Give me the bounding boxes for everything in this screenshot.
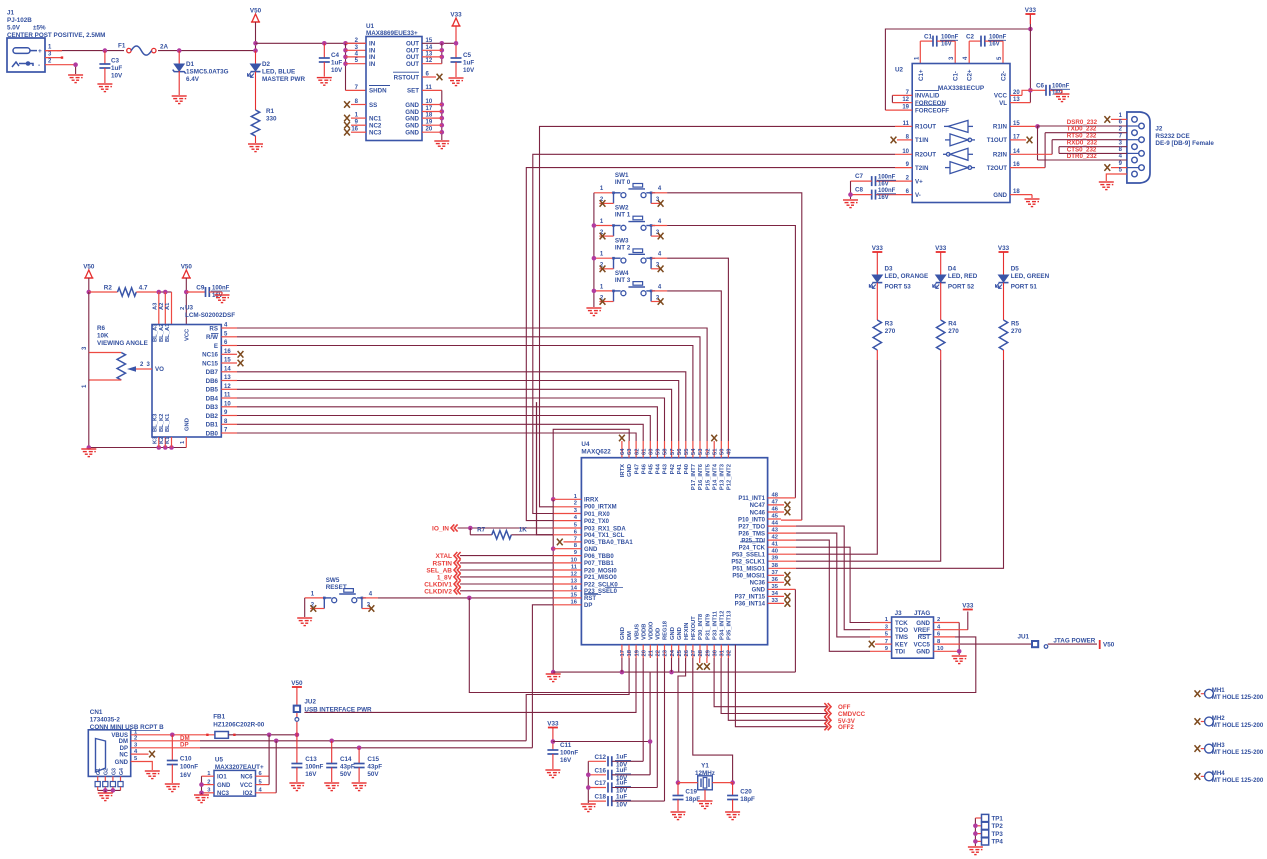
svg-text:GND: GND — [627, 464, 633, 477]
U2 FORCEOFF wire to V33 loop — [885, 109, 912, 111]
svg-text:V-: V- — [915, 192, 921, 199]
svg-text:P21_MISO0: P21_MISO0 — [584, 575, 617, 581]
svg-text:+: + — [38, 48, 42, 55]
svg-text:V33: V33 — [962, 602, 974, 609]
wire C18 riser to REG18 — [664, 658, 666, 801]
U4 bottom pin 30 P33_INT11 — [713, 645, 715, 658]
svg-text:54: 54 — [691, 448, 697, 455]
svg-text:VO: VO — [155, 366, 164, 373]
svg-text:100nF: 100nF — [878, 175, 896, 181]
ground at C14 — [324, 783, 339, 791]
svg-text:18pF: 18pF — [740, 796, 755, 803]
U4 top pin 56 P41 — [678, 441, 680, 458]
svg-text:SS: SS — [369, 102, 377, 109]
svg-text:C16: C16 — [595, 767, 607, 774]
U4 bottom pin 31 P34_INT12 — [720, 645, 722, 658]
svg-text:270: 270 — [1011, 328, 1022, 335]
U2 VL wire — [1010, 102, 1030, 104]
wire U5 left bracket to ground — [201, 776, 203, 793]
svg-text:PORT 51: PORT 51 — [1011, 284, 1038, 291]
mount hole MH4 — [1195, 773, 1201, 780]
ground at J2 — [1099, 182, 1114, 190]
wire D3 to U4 P53 — [796, 360, 877, 554]
svg-text:A2: A2 — [159, 303, 165, 310]
mount hole MH1 — [1195, 690, 1201, 697]
ground at LCD — [81, 449, 96, 457]
ground at U4 bus — [546, 674, 561, 682]
svg-text:V50: V50 — [181, 264, 193, 271]
svg-text:V50: V50 — [83, 264, 95, 271]
svg-text:RSTOUT: RSTOUT — [394, 74, 420, 81]
svg-text:LED, GREEN: LED, GREEN — [1011, 273, 1050, 280]
svg-text:RSTIN: RSTIN — [433, 560, 453, 567]
capacitor C9 — [186, 291, 205, 293]
ground at D1 — [172, 96, 187, 104]
wire RST to JTAG — [469, 598, 976, 693]
U4 pin 64 no-connect — [619, 435, 625, 442]
svg-text:RS232 DCE: RS232 DCE — [1155, 133, 1189, 140]
svg-text:GND: GND — [620, 627, 626, 640]
svg-text:J2: J2 — [1155, 126, 1163, 133]
wire DB3 to U4 — [221, 406, 237, 408]
J2 pin 5 wire to ground — [1106, 174, 1127, 181]
svg-text:63: 63 — [627, 448, 633, 455]
svg-text:P14_INT4: P14_INT4 — [712, 463, 718, 490]
J1 pin 3 stub — [45, 57, 62, 59]
wire R2IN to RTS — [1010, 153, 1052, 155]
svg-text:T2IN: T2IN — [915, 165, 929, 172]
mount hole MH3 — [1195, 745, 1201, 752]
wire rail upper to U1 — [256, 42, 367, 44]
svg-text:U5: U5 — [215, 757, 224, 764]
U2 GND pin 18 wire — [1010, 194, 1032, 196]
svg-text:JTAG: JTAG — [914, 610, 930, 617]
svg-text:100nF: 100nF — [878, 188, 896, 194]
wire R1OUT to U4 P00 — [895, 125, 912, 127]
ground at U1 — [434, 141, 449, 149]
svg-text:SW4: SW4 — [615, 270, 629, 277]
ground at C6 — [1061, 90, 1063, 93]
wire R1IN to DSR — [1010, 125, 1038, 127]
svg-text:TP2: TP2 — [992, 823, 1004, 830]
node DSR0_232 — [1038, 125, 1127, 127]
svg-text:U2: U2 — [895, 67, 904, 74]
capacitor C12 — [588, 760, 606, 762]
U4 top pin 57 P42 — [671, 441, 673, 458]
svg-text:P00_IRTXM: P00_IRTXM — [584, 505, 617, 511]
svg-text:A3: A3 — [153, 302, 159, 310]
capacitor C5 — [451, 58, 462, 62]
diode D1 zener — [177, 48, 182, 53]
svg-text:56: 56 — [677, 448, 683, 455]
svg-text:OUT: OUT — [406, 61, 419, 68]
U4 top pin 60 P45 — [649, 441, 651, 458]
wire U5 NC6 VCC to VBUS — [256, 775, 270, 777]
svg-text:NC2: NC2 — [369, 123, 382, 130]
svg-text:58: 58 — [663, 448, 669, 455]
svg-text:T2OUT: T2OUT — [987, 165, 1008, 172]
U4 top pin 59 P44 — [656, 441, 658, 458]
power V50 at LCD VCC — [182, 270, 191, 278]
svg-text:GND: GND — [217, 783, 231, 789]
svg-text:P31_INT9: P31_INT9 — [705, 613, 711, 640]
svg-text:DB1: DB1 — [206, 422, 219, 429]
U4 pin 51 no-connect — [711, 435, 717, 442]
svg-text:R5: R5 — [1011, 321, 1020, 328]
J2 pin 1 no-connect — [1111, 118, 1127, 120]
ground at C13 — [289, 783, 304, 791]
svg-text:VIEWING ANGLE: VIEWING ANGLE — [97, 340, 148, 347]
svg-text:P44: P44 — [656, 463, 662, 474]
U4 top pin 55 P40 — [685, 441, 687, 458]
svg-text:V+: V+ — [915, 178, 923, 185]
U4 bottom pin 25 GND — [678, 645, 680, 658]
svg-text:50: 50 — [720, 449, 726, 455]
svg-text:NC16: NC16 — [202, 352, 218, 359]
wire R/W to U4 — [221, 336, 237, 338]
svg-text:D4: D4 — [948, 266, 957, 273]
ground at C5 — [449, 78, 464, 86]
wire R2OUT to U4 P01 — [895, 153, 912, 155]
U4 top pin 58 P43 — [664, 441, 666, 458]
svg-text:27: 27 — [691, 650, 697, 656]
wire V33 branch to VDD — [553, 673, 650, 742]
wire RS to U4 — [221, 327, 237, 329]
wire HFXOUT to crystal — [693, 658, 733, 783]
svg-text:U3: U3 — [185, 305, 194, 312]
svg-text:P33_INT11: P33_INT11 — [712, 610, 718, 640]
wire T2IN to U4 P02 — [895, 167, 912, 169]
svg-text:5.0V: 5.0V — [7, 25, 21, 32]
svg-text:G4: G4 — [119, 768, 125, 775]
svg-text:C6: C6 — [1036, 83, 1045, 90]
power V50 at R2 — [84, 270, 93, 278]
svg-text:JTAG POWER: JTAG POWER — [1053, 638, 1095, 645]
svg-text:P15_INT5: P15_INT5 — [705, 463, 711, 490]
wire D4 to U4 P52 — [796, 360, 941, 561]
power V33 at D3 — [872, 251, 882, 253]
svg-text:270: 270 — [885, 328, 896, 335]
capacitor C13 — [296, 735, 298, 764]
ground at CN1 shell — [98, 793, 113, 801]
svg-text:62: 62 — [634, 449, 640, 455]
svg-text:1uF: 1uF — [616, 780, 627, 787]
svg-text:GND: GND — [405, 123, 419, 130]
svg-text:IO1: IO1 — [217, 775, 227, 781]
svg-text:61: 61 — [641, 448, 647, 455]
node CMDVCC — [721, 658, 828, 714]
svg-text:RST: RST — [918, 634, 931, 641]
capacitor C7 — [876, 180, 913, 182]
svg-text:10V: 10V — [463, 67, 475, 74]
svg-text:1K: 1K — [519, 527, 528, 534]
connector J1 power jack — [7, 38, 45, 72]
U4 bottom pin 22 VDD — [656, 645, 658, 658]
ground at C9 — [221, 292, 223, 294]
svg-text:100nF: 100nF — [180, 764, 198, 771]
svg-text:R2IN: R2IN — [993, 152, 1008, 159]
svg-text:G3: G3 — [111, 768, 117, 775]
svg-text:P10_INT0: P10_INT0 — [738, 517, 766, 523]
svg-text:GND: GND — [916, 620, 930, 627]
U4 left pins 1-8 stubs — [553, 498, 581, 500]
svg-text:43pF: 43pF — [367, 763, 382, 770]
U4 top pin 53 P16_INT6 — [699, 441, 701, 458]
svg-text:100nF: 100nF — [305, 763, 323, 770]
svg-text:C1+: C1+ — [918, 69, 925, 81]
crystal case ground — [704, 790, 706, 800]
ground at SW5 — [297, 618, 312, 626]
svg-text:R1OUT: R1OUT — [915, 124, 936, 131]
svg-text:330: 330 — [266, 116, 277, 123]
svg-text:100nF: 100nF — [941, 35, 959, 41]
svg-text:TDI: TDI — [895, 649, 905, 656]
LED D4 — [936, 275, 946, 282]
power V33 at J3 — [963, 609, 973, 611]
svg-text:C8: C8 — [855, 187, 864, 194]
svg-text:F1: F1 — [118, 43, 126, 50]
U1 pin2 wire — [346, 42, 367, 44]
wire DB0 to U4 — [221, 432, 237, 434]
svg-text:1uF: 1uF — [616, 793, 627, 800]
svg-text:SW1: SW1 — [615, 172, 629, 179]
svg-text:C13: C13 — [305, 756, 317, 763]
capacitor C17 — [588, 787, 606, 789]
wire DB6 to U4 — [221, 380, 237, 382]
svg-text:NC3: NC3 — [217, 791, 230, 797]
node 5V-3V — [728, 658, 828, 720]
CN1 shell pins G1-G4 — [97, 776, 99, 781]
J1 pin 1 wire — [45, 50, 62, 52]
svg-text:P46: P46 — [641, 463, 647, 474]
svg-text:R/W: R/W — [206, 334, 218, 341]
svg-text:GND: GND — [916, 649, 930, 656]
svg-text:FB1: FB1 — [213, 714, 225, 721]
svg-text:BL_A1: BL_A1 — [165, 323, 171, 342]
U4 bottom pin 27 HFXOUT — [692, 645, 694, 658]
capacitor C18 — [588, 800, 606, 802]
svg-text:17: 17 — [620, 650, 626, 656]
svg-text:P35_INT13: P35_INT13 — [727, 610, 733, 640]
svg-text:C2+: C2+ — [967, 69, 974, 81]
svg-text:C2: C2 — [966, 34, 975, 41]
wire VBUS line — [131, 734, 215, 736]
svg-text:GND: GND — [405, 102, 419, 109]
svg-text:10V: 10V — [331, 67, 343, 74]
capacitor C3 — [103, 48, 108, 53]
svg-text:V50: V50 — [1103, 642, 1115, 649]
svg-text:16V: 16V — [989, 42, 1000, 48]
svg-text:C18: C18 — [595, 794, 607, 801]
svg-text:RTS0_232: RTS0_232 — [1067, 133, 1097, 140]
svg-text:1uF: 1uF — [331, 60, 342, 67]
ground at C15 — [352, 783, 367, 791]
svg-text:JU1: JU1 — [1017, 634, 1029, 641]
svg-text:DE-9 [DB-9] Female: DE-9 [DB-9] Female — [1155, 140, 1214, 147]
svg-text:100nF: 100nF — [560, 750, 578, 757]
svg-text:TMS: TMS — [895, 634, 908, 641]
svg-text:R1: R1 — [266, 108, 275, 115]
svg-text:16V: 16V — [878, 195, 889, 201]
svg-text:C2-: C2- — [1001, 71, 1008, 81]
svg-text:1SMC5.0AT3G: 1SMC5.0AT3G — [186, 69, 229, 76]
ground at C18 bracket — [581, 804, 596, 812]
svg-text:LED, BLUE: LED, BLUE — [262, 69, 295, 76]
svg-text:TP3: TP3 — [992, 831, 1004, 838]
ground at switches — [586, 308, 601, 316]
svg-text:MH2: MH2 — [1212, 715, 1225, 722]
U4 bottom pin 18 DM — [628, 645, 630, 658]
svg-text:JU2: JU2 — [304, 699, 316, 706]
ground at C10 — [165, 784, 180, 792]
svg-text:VCC5: VCC5 — [913, 641, 930, 648]
svg-text:1uF: 1uF — [616, 754, 627, 761]
wire U1 input bracket — [343, 41, 348, 46]
svg-text:VBUS: VBUS — [634, 624, 640, 640]
svg-text:16V: 16V — [180, 772, 192, 779]
wire SW2 to U4 P11_INT1 — [667, 226, 795, 498]
svg-text:50V: 50V — [340, 771, 352, 778]
U1 RSTOUT no-connect — [422, 76, 436, 78]
U1 SET wire and GND bracket — [422, 89, 442, 91]
svg-text:SW3: SW3 — [615, 237, 629, 244]
svg-text:IO_IN: IO_IN — [432, 526, 449, 533]
svg-text:PJ-102B: PJ-102B — [7, 17, 32, 24]
svg-text:G2: G2 — [104, 768, 110, 775]
U2 VCC wire — [1010, 94, 1022, 96]
svg-text:MT HOLE 125-200: MT HOLE 125-200 — [1212, 722, 1264, 729]
svg-text:32: 32 — [727, 650, 733, 656]
svg-text:R1IN: R1IN — [993, 124, 1008, 131]
svg-text:C14: C14 — [340, 756, 352, 763]
U4 top pin 52 P15_INT5 — [706, 441, 708, 458]
connector J2 DE-9 — [1127, 112, 1150, 183]
svg-text:RS: RS — [209, 325, 218, 332]
svg-text:PORT 53: PORT 53 — [885, 284, 912, 291]
wire branch to U4 P04 — [537, 402, 554, 535]
svg-text:C15: C15 — [367, 756, 379, 763]
svg-text:C4: C4 — [331, 52, 340, 59]
svg-text:MAXQ622: MAXQ622 — [581, 449, 611, 456]
svg-text:20: 20 — [641, 650, 647, 656]
svg-text:55: 55 — [684, 448, 690, 455]
node CTS0_232 — [1059, 152, 1127, 154]
svg-text:INT 0: INT 0 — [615, 179, 631, 186]
svg-text:51: 51 — [712, 448, 718, 455]
power V33 at U2 — [1025, 13, 1035, 15]
capacitor C15 — [358, 748, 360, 764]
svg-text:V33: V33 — [1025, 7, 1037, 14]
svg-text:DB4: DB4 — [206, 395, 219, 402]
ground at U5 — [194, 795, 209, 803]
wire DSR to DTR loop — [1037, 126, 1039, 160]
svg-text:57: 57 — [670, 449, 676, 455]
svg-text:TP4: TP4 — [992, 839, 1004, 846]
svg-text:P52_SCLK1: P52_SCLK1 — [731, 560, 765, 566]
node OFF — [714, 658, 828, 707]
svg-text:V33: V33 — [935, 245, 947, 252]
svg-text:53: 53 — [698, 448, 704, 455]
svg-text:VCC: VCC — [240, 783, 253, 789]
svg-text:D3: D3 — [885, 266, 894, 273]
U4 top pin 61 P46 — [642, 441, 644, 458]
svg-text:RST: RST — [584, 596, 596, 602]
svg-text:21: 21 — [649, 649, 655, 656]
svg-text:DB6: DB6 — [206, 378, 219, 385]
svg-text:29: 29 — [705, 649, 711, 656]
svg-text:GND: GND — [405, 115, 419, 122]
svg-text:LED, RED: LED, RED — [948, 273, 978, 280]
svg-text:GND: GND — [115, 760, 129, 766]
svg-text:VDDB: VDDB — [641, 624, 647, 640]
svg-text:OUT: OUT — [406, 41, 419, 48]
CN1 NC pin no-connect — [131, 753, 149, 755]
svg-text:BL_A2: BL_A2 — [159, 324, 165, 342]
U4 right no-connect pins — [768, 504, 784, 506]
svg-text:60: 60 — [649, 449, 655, 455]
svg-text:LED, ORANGE: LED, ORANGE — [885, 273, 929, 280]
svg-text:MH1: MH1 — [1212, 687, 1225, 694]
svg-text:C1-: C1- — [953, 71, 960, 81]
svg-text:D1: D1 — [186, 61, 195, 68]
U4 top pin 54 P17_INT7 — [692, 441, 694, 458]
svg-text:C11: C11 — [560, 742, 572, 749]
svg-text:31: 31 — [720, 649, 726, 656]
svg-text:P47: P47 — [634, 464, 640, 474]
svg-text:P01_RX0: P01_RX0 — [584, 512, 610, 518]
svg-text:10K: 10K — [97, 333, 109, 340]
svg-text:TCK: TCK — [895, 620, 908, 627]
ground at C11 — [545, 770, 560, 778]
svg-text:18pF: 18pF — [685, 796, 700, 803]
svg-text:P12_INT2: P12_INT2 — [727, 464, 733, 490]
power V50 main — [251, 14, 260, 22]
wire SW4 to U4 P13_INT3 — [667, 291, 721, 441]
U3 NC pins no-connect — [221, 353, 237, 355]
jumper JU2 — [292, 686, 302, 688]
svg-text:18: 18 — [627, 649, 633, 656]
U2 buffer triangles — [943, 120, 975, 173]
wire DB2 to U4 — [221, 415, 237, 417]
svg-text:C12: C12 — [595, 754, 607, 761]
power V33 at C11 — [548, 727, 558, 729]
wire USB power to U4 VBUS pin19 — [304, 658, 636, 712]
test points TP1-TP4 — [974, 818, 976, 846]
svg-text:CENTER POST POSITIVE, 2.5MM: CENTER POST POSITIVE, 2.5MM — [7, 32, 105, 39]
svg-text:INT 1: INT 1 — [615, 212, 631, 219]
wire P11_INT1 stub — [768, 497, 781, 499]
U4 bottom pin 32 P35_INT13 — [727, 645, 729, 658]
svg-text:GND: GND — [405, 130, 419, 137]
wire RST net — [378, 597, 553, 599]
svg-text:SW5: SW5 — [326, 577, 340, 584]
svg-text:GND: GND — [752, 588, 766, 594]
U4 bottom pin 29 P31_INT9 — [706, 645, 708, 658]
svg-text:39: 39 — [772, 556, 779, 562]
svg-text:LCM-S02002DSF: LCM-S02002DSF — [185, 312, 235, 319]
wire TMS to J3 — [768, 532, 796, 534]
resistor R1 — [251, 110, 259, 136]
U4 top pin 49 P12_INT2 — [727, 441, 729, 458]
svg-text:GND: GND — [677, 627, 683, 640]
svg-text:P36_INT14: P36_INT14 — [735, 602, 766, 608]
svg-text:16V: 16V — [305, 771, 317, 778]
svg-text:J3: J3 — [895, 610, 903, 617]
svg-text:P45: P45 — [649, 463, 655, 474]
svg-text:DP: DP — [584, 603, 592, 609]
ground at C8 — [843, 200, 858, 208]
svg-text:26: 26 — [684, 649, 690, 656]
